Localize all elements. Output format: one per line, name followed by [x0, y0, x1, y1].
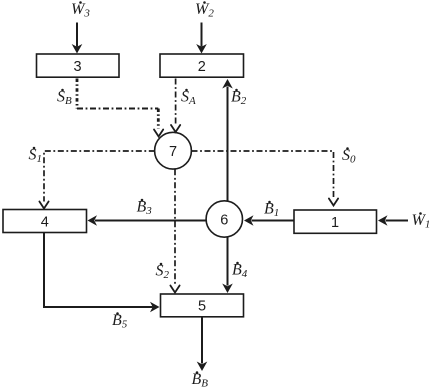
- svg-text:7: 7: [169, 144, 177, 160]
- svg-text:2: 2: [198, 59, 206, 75]
- svg-text:5: 5: [198, 299, 206, 315]
- svg-text:4: 4: [41, 214, 49, 230]
- svg-text:6: 6: [220, 212, 228, 228]
- svg-text:3: 3: [73, 59, 81, 75]
- svg-text:1: 1: [331, 215, 339, 231]
